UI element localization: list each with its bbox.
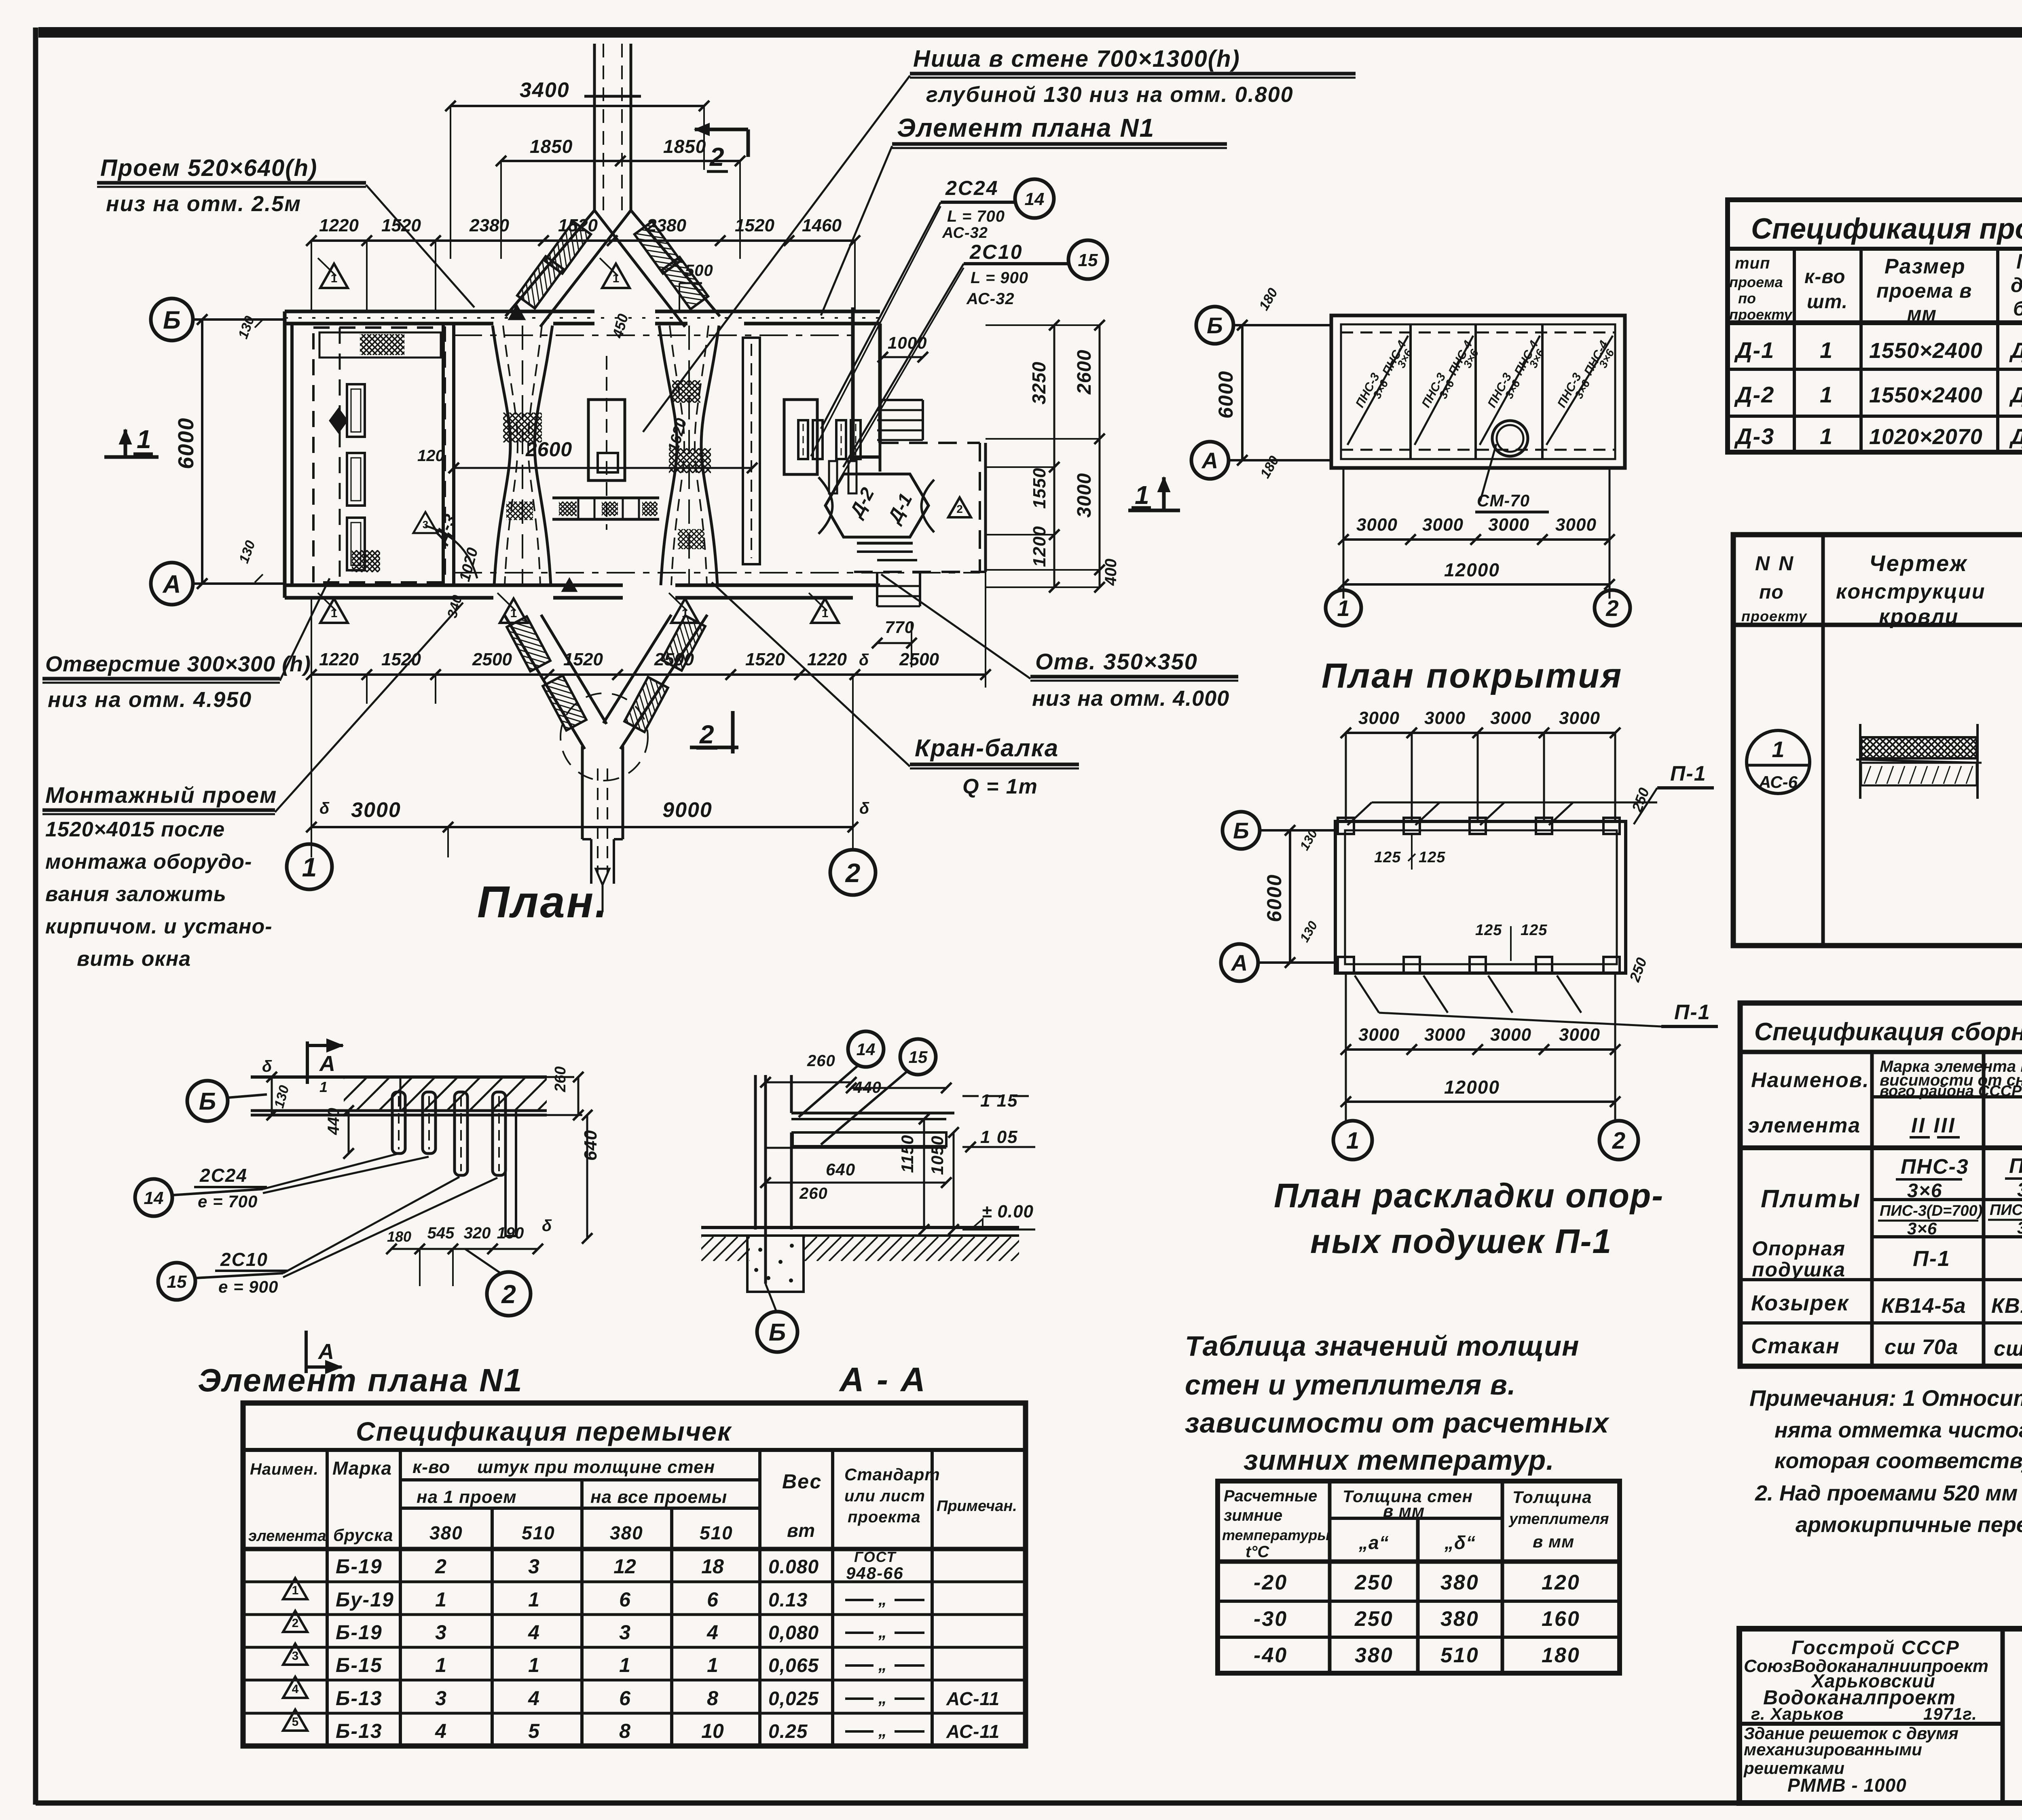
svg-text:штук при толщине стен: штук при толщине стен: [477, 1457, 715, 1477]
svg-text:380: 380: [1440, 1571, 1479, 1594]
svg-text:2. Над проемами 520 мм и м: 2. Над проемами 520 мм и менее устраиваю…: [1755, 1481, 2022, 1505]
svg-text:Стакан: Стакан: [1751, 1334, 1840, 1358]
svg-text:1971г.: 1971г.: [1923, 1704, 1977, 1723]
А-А wall: [754, 1075, 757, 1230]
svg-text:бруска: бруска: [333, 1526, 393, 1545]
svg-text:на 1 проем: на 1 проем: [417, 1487, 517, 1507]
svg-text:стен и утеплителя в.: стен и утеплителя в.: [1185, 1369, 1516, 1401]
svg-text:„: „: [878, 1688, 887, 1707]
svg-text:2500: 2500: [472, 650, 512, 669]
svg-text:„: „: [878, 1589, 887, 1608]
lintel bars in element plan: [392, 1092, 405, 1153]
svg-text:Б-13: Б-13: [336, 1687, 383, 1710]
svg-text:проекту: проекту: [1741, 608, 1807, 624]
central equipment: [588, 400, 625, 480]
svg-text:1: 1: [1337, 595, 1349, 621]
svg-text:1: 1: [619, 1654, 630, 1676]
svg-text:3000: 3000: [351, 798, 401, 822]
svg-text:г. Харьков: г. Харьков: [1751, 1704, 1844, 1723]
svg-text:Спецификация перемычек: Спецификация перемычек: [356, 1416, 732, 1446]
table: lintel specification (перемычки): [243, 1403, 1026, 1746]
svg-text:9000: 9000: [662, 798, 713, 822]
element plan right side dims: [547, 1076, 574, 1078]
svg-text:Отверстие 300×300 (h): Отверстие 300×300 (h): [45, 652, 311, 676]
svg-text:0.25: 0.25: [768, 1721, 808, 1742]
svg-text:ГОСТ: ГОСТ: [854, 1549, 897, 1565]
column circle 2 (element plan): [487, 1272, 531, 1316]
svg-text:2С10: 2С10: [969, 241, 1023, 263]
svg-text:КВ14-6а: КВ14-6а: [1991, 1294, 2022, 1318]
element plan wall band: [251, 1075, 547, 1079]
label circle 14 with 2C24: [1015, 179, 1054, 218]
axis circle Б (main plan): [151, 298, 193, 341]
svg-text:Стандарт: Стандарт: [844, 1465, 940, 1484]
svg-text:к-во: к-во: [1804, 266, 1845, 288]
svg-text:1550×2400: 1550×2400: [1869, 383, 1983, 407]
narrow duct right of bottle: [743, 338, 760, 564]
tank block top hatched band: [319, 332, 441, 358]
svg-text:блоков: блоков: [2013, 297, 2022, 320]
svg-text:е = 700: е = 700: [198, 1192, 258, 1211]
svg-text:монтажа оборудо-: монтажа оборудо-: [45, 850, 252, 874]
svg-text:2380: 2380: [646, 216, 686, 235]
svg-text:2500: 2500: [899, 650, 939, 669]
svg-text:1: 1: [1135, 480, 1149, 510]
svg-text:15: 15: [167, 1272, 187, 1292]
svg-text:1: 1: [1820, 382, 1832, 407]
svg-text:АС-11: АС-11: [946, 1721, 1000, 1742]
svg-text:1220: 1220: [807, 650, 847, 669]
svg-text:А: А: [1231, 950, 1248, 976]
svg-text:СМ-70: СМ-70: [1477, 491, 1530, 510]
roof plan dim chain 3000x4: [1343, 538, 1610, 541]
svg-text:3000: 3000: [1358, 708, 1400, 728]
svg-text:1: 1: [1820, 423, 1832, 449]
svg-text:180: 180: [387, 1228, 411, 1245]
svg-text:кровли: кровли: [1879, 605, 1959, 629]
svg-text:Д-3: Д-3: [1734, 423, 1775, 449]
svg-text:948-66: 948-66: [846, 1564, 904, 1583]
svg-text:Д7 - ППВ: Д7 - ППВ: [2009, 425, 2022, 449]
table: roof construction layers: [1733, 535, 2022, 946]
stairs top right: [880, 399, 923, 401]
svg-text:190: 190: [497, 1224, 524, 1242]
sheet frame bottom border: [36, 1801, 2022, 1806]
pads plan axis circle Б: [1223, 812, 1260, 849]
svg-text:Примечан.: Примечан.: [937, 1498, 1017, 1515]
svg-text:3400: 3400: [520, 78, 570, 102]
svg-text:6: 6: [707, 1588, 719, 1611]
svg-text:510: 510: [522, 1522, 555, 1543]
main building plan: [42, 44, 1356, 971]
svg-text:элемента: элемента: [1748, 1114, 1861, 1137]
svg-text:Вес: Вес: [782, 1470, 822, 1493]
svg-text:1 05: 1 05: [980, 1127, 1018, 1147]
svg-text:А: А: [162, 570, 181, 598]
tank block (dashed): [313, 328, 445, 582]
detail: element plan N1: [135, 1039, 601, 1398]
duct collars top: [529, 204, 604, 296]
column circle 2 (roof plan): [1595, 590, 1630, 626]
section mark 2 (top): [695, 128, 748, 131]
label circle 15 with 2C10: [1068, 240, 1107, 279]
svg-text:120: 120: [417, 447, 444, 465]
svg-text:250: 250: [1354, 1571, 1394, 1594]
svg-text:глубиной 130 низ на отм. 0.800: глубиной 130 низ на отм. 0.800: [926, 83, 1294, 107]
duct top vertical: [593, 44, 596, 210]
roof plan vertical dim 6000: [1241, 325, 1244, 460]
column circle 2 (pads plan): [1599, 1121, 1638, 1160]
svg-text:3: 3: [435, 1687, 446, 1710]
svg-text:400: 400: [1102, 559, 1120, 586]
svg-text:14: 14: [1025, 189, 1045, 209]
door swing hexagon Д-2 Д-1: [825, 474, 929, 537]
svg-text:1520: 1520: [558, 216, 598, 235]
svg-text:е = 900: е = 900: [218, 1277, 278, 1296]
svg-text:Размер: Размер: [1885, 255, 1966, 278]
svg-text:Б: Б: [1207, 313, 1223, 338]
axis circle Б (element plan): [187, 1081, 228, 1121]
svg-text:по: по: [1738, 290, 1756, 307]
svg-text:Д52 - ЛВ: Д52 - ЛВ: [2009, 383, 2022, 407]
svg-text:вого района СССР: вого района СССР: [1880, 1083, 2022, 1100]
svg-text:6000: 6000: [1214, 370, 1237, 419]
svg-text:мм: мм: [1907, 303, 1937, 325]
svg-text:1550: 1550: [1030, 468, 1049, 509]
right dim chain inner: [1053, 325, 1055, 587]
svg-text:3250: 3250: [1028, 362, 1049, 404]
left bottle channel: [493, 326, 510, 585]
А-А ground line and foundation: [701, 1226, 1019, 1229]
svg-text:0,065: 0,065: [768, 1655, 819, 1676]
element plan bottom dim chain: [391, 1248, 538, 1250]
tank block window slots: [347, 384, 365, 437]
svg-text:3000: 3000: [1488, 515, 1529, 535]
svg-text:1460: 1460: [802, 216, 842, 235]
svg-text:-30: -30: [1254, 1607, 1288, 1631]
svg-text:3×6: 3×6: [1907, 1180, 1942, 1202]
svg-text:Госстрой СССР: Госстрой СССР: [1791, 1637, 1960, 1659]
svg-text:15: 15: [1078, 250, 1098, 270]
svg-text:Элемент плана N1: Элемент плана N1: [897, 113, 1155, 142]
svg-text:механизированными: механизированными: [1744, 1740, 1922, 1759]
leader circle 14 (А-А): [848, 1031, 884, 1067]
svg-text:3000: 3000: [1490, 708, 1531, 728]
svg-text:260: 260: [799, 1185, 828, 1202]
window rect in hall right part: [784, 400, 817, 474]
inner wall (tank room partition): [442, 324, 445, 585]
svg-text:2600: 2600: [1074, 349, 1095, 395]
svg-text:125: 125: [1475, 922, 1502, 939]
svg-text:КВ14-5а: КВ14-5а: [1881, 1294, 1966, 1318]
svg-text:-40: -40: [1254, 1644, 1288, 1667]
column circle 1 (pads plan): [1333, 1121, 1372, 1160]
svg-text:1: 1: [707, 1654, 718, 1676]
svg-text:120: 120: [1542, 1571, 1580, 1594]
svg-text:3000: 3000: [1424, 708, 1466, 728]
svg-text:1550×2400: 1550×2400: [1869, 339, 1983, 363]
svg-text:1: 1: [528, 1654, 539, 1676]
svg-text:4: 4: [435, 1720, 446, 1742]
svg-text:1: 1: [1346, 1128, 1359, 1154]
right bottle channel: [659, 326, 677, 585]
bottom junction dashed circle: [560, 693, 648, 781]
duct bottom Y branches: [504, 615, 585, 749]
top dims 1850 1850: [501, 160, 740, 162]
svg-text:640: 640: [581, 1130, 601, 1161]
svg-text:2: 2: [501, 1280, 516, 1309]
svg-text:План покрытия: План покрытия: [1322, 656, 1623, 695]
svg-text:510: 510: [1440, 1644, 1479, 1667]
svg-text:армокирпичные перемычки.: армокирпичные перемычки.: [1796, 1513, 2022, 1537]
svg-text:1: 1: [435, 1588, 446, 1611]
svg-text:А - А: А - А: [839, 1361, 927, 1399]
svg-text:в мм: в мм: [1533, 1532, 1574, 1551]
svg-text:0,080: 0,080: [768, 1622, 819, 1644]
svg-text:12000: 12000: [1444, 1077, 1500, 1098]
svg-text:Б-15: Б-15: [336, 1654, 383, 1676]
table: precast concrete elements specification: [1740, 1003, 2022, 1366]
roof node mark circle 1/АС-6: [1747, 730, 1810, 794]
svg-text:500: 500: [685, 262, 713, 279]
pads plan top dim chain: [1346, 732, 1615, 734]
roof slab joints: [1409, 324, 1412, 459]
svg-text:Б-19: Б-19: [336, 1555, 383, 1578]
svg-text:Толщина: Толщина: [1512, 1488, 1592, 1507]
title block: [1739, 1629, 2022, 1803]
svg-text:Бу-19: Бу-19: [336, 1588, 394, 1611]
right wall at axis 2: [851, 307, 855, 457]
svg-text:к-во: к-во: [412, 1457, 450, 1477]
svg-text:2: 2: [1605, 595, 1618, 621]
roof plan slab outline: [1331, 315, 1625, 468]
svg-text:Б-13: Б-13: [336, 1720, 383, 1742]
svg-text:или лист: или лист: [844, 1487, 925, 1505]
svg-text:П-1: П-1: [1670, 762, 1707, 785]
А-А beam ledge: [791, 1112, 954, 1115]
770 dim: [877, 642, 912, 644]
lintel bars top right (plan): [798, 420, 808, 459]
svg-text:10: 10: [701, 1720, 724, 1742]
svg-text:ПИС-4(D=700): ПИС-4(D=700): [1990, 1202, 2022, 1219]
duct bottom vertical: [581, 746, 584, 839]
svg-text:„: „: [878, 1655, 887, 1674]
svg-text:4: 4: [528, 1687, 539, 1710]
sheet frame left border: [33, 28, 38, 1805]
svg-text:380: 380: [1440, 1607, 1479, 1631]
svg-text:вить окна: вить окна: [77, 947, 191, 971]
svg-text:380: 380: [429, 1522, 463, 1543]
svg-text:2600: 2600: [525, 438, 572, 461]
svg-text:-20: -20: [1254, 1571, 1288, 1594]
svg-text:± 0.00: ± 0.00: [982, 1202, 1034, 1221]
roof plan dim 12000: [1343, 583, 1610, 586]
bottom wall: [285, 584, 623, 587]
pads (opornye podushki): [1338, 818, 1354, 834]
section mark 1 (right): [1128, 509, 1180, 512]
svg-text:3000: 3000: [1356, 515, 1398, 535]
svg-text:РММВ - 1000: РММВ - 1000: [1787, 1775, 1907, 1796]
svg-text:кирпичом. и устано-: кирпичом. и устано-: [45, 915, 273, 938]
svg-text:260: 260: [552, 1067, 569, 1092]
svg-text:160: 160: [1542, 1607, 1580, 1631]
svg-text:А: А: [319, 1052, 335, 1076]
svg-text:1520: 1520: [735, 216, 774, 235]
svg-text:которая соответствует абсолют: которая соответствует абсолютной отметке: [1775, 1449, 2022, 1473]
svg-text:низ на отм. 4.000: низ на отм. 4.000: [1032, 686, 1229, 711]
svg-text:2: 2: [1612, 1128, 1625, 1154]
svg-text:770: 770: [885, 618, 914, 637]
svg-text:180: 180: [1542, 1644, 1580, 1667]
bottom dim chain: [311, 673, 986, 676]
svg-text:низ на отм. 2.5м: низ на отм. 2.5м: [106, 192, 301, 216]
svg-text:П-1: П-1: [1913, 1246, 1950, 1271]
axis dash-dot lines: [454, 334, 853, 336]
svg-text:2380: 2380: [469, 216, 509, 235]
element plan dim marks left: [271, 1077, 273, 1115]
table: door openings specification: [1728, 200, 2022, 452]
svg-text:3: 3: [292, 1649, 299, 1663]
svg-text:14: 14: [857, 1040, 876, 1059]
svg-text:зависимости от расчетных: зависимости от расчетных: [1185, 1407, 1610, 1439]
triangle mark 2 right: [948, 497, 971, 517]
svg-text:тип: тип: [1735, 254, 1770, 272]
svg-text:18: 18: [701, 1555, 724, 1578]
solid triangle marks: [509, 305, 525, 320]
top dim chain: [311, 239, 855, 242]
svg-text:элемента: элемента: [248, 1528, 326, 1545]
svg-text:утеплителя: утеплителя: [1508, 1511, 1609, 1528]
svg-text:12000: 12000: [1444, 559, 1500, 580]
svg-text:4: 4: [528, 1621, 539, 1644]
svg-text:на все проемы: на все проемы: [590, 1487, 727, 1507]
svg-text:Козырек: Козырек: [1751, 1291, 1849, 1315]
svg-text:Примечания: 1 Относительной от: Примечания: 1 Относительной отметкой ± 0…: [1749, 1385, 2022, 1411]
svg-text:1520: 1520: [745, 650, 785, 669]
svg-text:П-1: П-1: [1674, 1001, 1711, 1024]
svg-text:сш 70а: сш 70а: [1885, 1335, 1958, 1359]
top dim 3400: [451, 105, 704, 107]
svg-text:δ: δ: [319, 800, 330, 817]
svg-text:380: 380: [1355, 1644, 1394, 1667]
svg-text:ных подушек П-1: ных подушек П-1: [1310, 1222, 1612, 1260]
svg-text:510: 510: [700, 1522, 733, 1543]
svg-text:ПИС-3(D=700): ПИС-3(D=700): [1880, 1202, 1982, 1219]
svg-text:вания заложить: вания заложить: [45, 882, 226, 906]
svg-text:6: 6: [619, 1687, 631, 1710]
svg-text:125: 125: [1521, 922, 1547, 939]
svg-text:125: 125: [1419, 849, 1445, 866]
annex lower step and stair: [857, 542, 913, 545]
svg-text:„δ“: „δ“: [1444, 1532, 1476, 1553]
svg-text:А: А: [317, 1340, 334, 1364]
svg-text:Марка: Марка: [2016, 250, 2022, 273]
svg-text:Д52 - ПВ: Д52 - ПВ: [2009, 339, 2022, 363]
axis circle Б (А-А): [757, 1312, 797, 1352]
svg-text:L = 700: L = 700: [947, 207, 1005, 225]
svg-text:1 15: 1 15: [980, 1091, 1018, 1111]
svg-text:1220: 1220: [319, 216, 359, 235]
svg-text:1050: 1050: [928, 1136, 947, 1175]
svg-text:1020×2070: 1020×2070: [1869, 425, 1983, 449]
svg-text:вт: вт: [787, 1520, 815, 1541]
leader circle 15 (element plan): [158, 1263, 195, 1300]
svg-text:Спецификация проемов двере: Спецификация проемов дверей на здание: [1751, 213, 2022, 245]
svg-text:N N: N N: [1755, 552, 1795, 575]
section mark 2 (bottom): [690, 746, 738, 749]
svg-text:сш 70а: сш 70а: [1994, 1337, 2022, 1361]
svg-text:260: 260: [807, 1052, 835, 1070]
svg-text:Б: Б: [769, 1319, 786, 1346]
duct collars bottom: [496, 597, 563, 694]
svg-text:ПНС-4: ПНС-4: [2009, 1154, 2022, 1178]
svg-text:1: 1: [1820, 337, 1832, 363]
svg-text:12: 12: [613, 1555, 636, 1578]
svg-text:4: 4: [706, 1621, 718, 1644]
svg-text:2: 2: [292, 1617, 299, 1630]
svg-text:проема: проема: [1729, 274, 1783, 290]
svg-text:2: 2: [956, 503, 963, 515]
section mark A top: [306, 1041, 309, 1084]
svg-text:План.: План.: [477, 877, 609, 927]
svg-text:Д-2: Д-2: [1734, 382, 1775, 407]
axis circle А (roof plan): [1191, 442, 1229, 479]
svg-text:320: 320: [464, 1224, 491, 1242]
svg-text:8: 8: [619, 1720, 630, 1742]
pads plan 6000 dim: [1289, 830, 1291, 963]
svg-text:15: 15: [909, 1048, 928, 1067]
section mark A bottom: [305, 1331, 308, 1373]
svg-text:А: А: [1201, 448, 1218, 473]
section mark 1 (left): [104, 455, 159, 459]
svg-text:t°С: t°С: [1246, 1543, 1269, 1561]
svg-text:1: 1: [319, 1079, 328, 1095]
axis circle А (main plan): [151, 563, 193, 605]
roof plan axis leader lines: [1233, 324, 1331, 326]
svg-text:Таблица значений толщин: Таблица значений толщин: [1185, 1330, 1579, 1362]
svg-text:Чертеж: Чертеж: [1869, 550, 1968, 576]
svg-text:1220: 1220: [319, 650, 359, 669]
svg-text:3×6: 3×6: [1907, 1219, 1937, 1238]
svg-text:640: 640: [826, 1160, 855, 1179]
sheet frame top border: [38, 27, 2022, 38]
svg-text:4: 4: [292, 1682, 299, 1696]
svg-text:6000: 6000: [174, 417, 198, 469]
svg-text:Проем 520×640(h): Проем 520×640(h): [100, 155, 317, 181]
svg-text:конструкции: конструкции: [1836, 580, 1986, 603]
svg-text:АС-32: АС-32: [966, 290, 1015, 308]
svg-text:Ниша в стене 700×1300(h): Ниша в стене 700×1300(h): [913, 46, 1240, 72]
svg-text:6: 6: [619, 1588, 631, 1611]
svg-text:2: 2: [845, 858, 861, 888]
svg-text:3000: 3000: [1424, 1025, 1466, 1045]
svg-text:проекту: проекту: [1729, 306, 1793, 323]
svg-text:Б: Б: [199, 1088, 216, 1115]
svg-text:2: 2: [435, 1555, 446, 1578]
svg-text:Элемент плана N1: Элемент плана N1: [198, 1362, 523, 1398]
svg-text:низ на отм. 4.950: низ на отм. 4.950: [48, 688, 252, 712]
svg-text:1: 1: [292, 1584, 299, 1597]
svg-text:„: „: [878, 1721, 887, 1740]
svg-text:Марка: Марка: [332, 1458, 392, 1479]
svg-text:в мм: в мм: [1383, 1501, 1425, 1520]
column circle 1 (main plan): [287, 844, 332, 889]
svg-text:Q = 1т: Q = 1т: [962, 775, 1038, 798]
left wall: [283, 311, 287, 598]
svg-text:Плиты: Плиты: [1761, 1185, 1861, 1213]
svg-text:2С24: 2С24: [199, 1165, 247, 1186]
svg-text:0,025: 0,025: [768, 1688, 819, 1710]
